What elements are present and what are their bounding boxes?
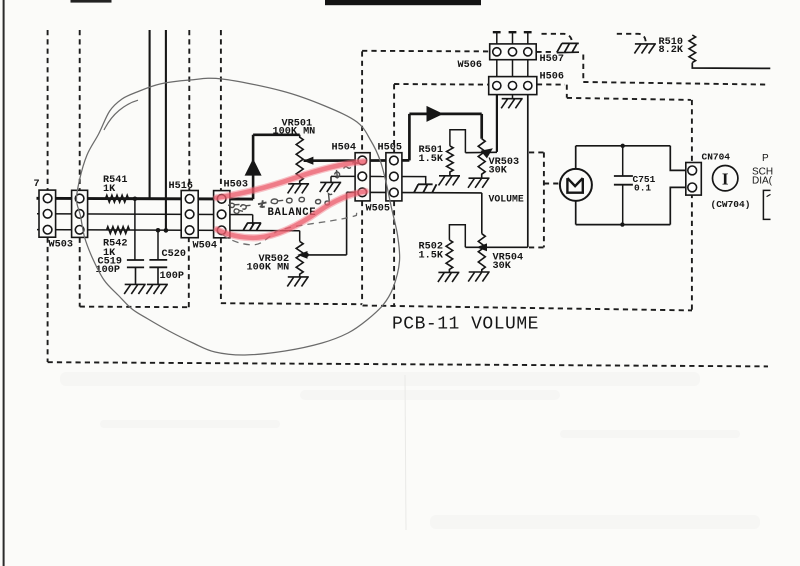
wire VR501 top horizontal [253, 134, 300, 137]
svg-text:1.5K: 1.5K [419, 251, 444, 262]
arrowhead VR502 wiper [297, 251, 307, 259]
capacitor C751 [614, 175, 633, 177]
wire to CN704 pin2 [670, 187, 686, 224]
wire H504 pin3 drop [346, 192, 348, 255]
svg-text:30K: 30K [493, 261, 512, 272]
connector W503 box A pin 7 [39, 190, 56, 237]
pink highlighter stroke lower (balance R) [217, 191, 366, 237]
connector H516 box [181, 191, 198, 238]
ground R501 [439, 176, 461, 186]
potentiometer VR501 [296, 135, 303, 184]
resistor R502 [446, 240, 453, 272]
wire VR502 wiper horizontal [304, 254, 347, 256]
board boundary dashed below W505 [393, 201, 395, 306]
wire VR503 wiper node [465, 151, 497, 153]
junction dot bus2 on bottom wire [164, 228, 169, 233]
svg-text:I: I [722, 169, 729, 188]
svg-text:W506: W506 [458, 60, 482, 71]
wire top signal (thick) W503 to H503 [37, 197, 254, 201]
wire H507 pin risers [496, 33, 498, 44]
svg-text:H505: H505 [378, 143, 402, 154]
hand-drawn pencil dashed line annotation [223, 210, 358, 245]
resistor R510 [689, 35, 696, 63]
junction dot C751 top [621, 144, 625, 148]
ground VR504 [468, 272, 490, 282]
wire vertical bus 1 [149, 30, 151, 199]
chassis ground right of H507 (parallelogram cells) [557, 43, 579, 52]
dashed from H506 left edge to H505 line [394, 83, 488, 86]
bracket symbol right edge [763, 190, 770, 219]
wire drop to VR504 top [481, 193, 483, 234]
wire bottom signal W503 to VR502 [37, 230, 300, 231]
resistor R542 [107, 227, 130, 234]
dashed vertical from H507 ground down [582, 55, 584, 82]
wire bottom channel H504-H505-VR504 [347, 191, 482, 194]
svg-text:C520: C520 [162, 249, 186, 260]
junction dot VR502 wiper [305, 253, 309, 257]
svg-text:0.1: 0.1 [634, 183, 651, 194]
svg-text:DIA(: DIA( [752, 176, 773, 187]
wire motor top [575, 146, 577, 169]
wire to CN704 pin1 [670, 146, 686, 171]
wire H505 pin2 stub [394, 177, 426, 185]
hand-drawn pencil ellipse annotation [76, 78, 399, 355]
inner box1 left edge dashed [79, 238, 81, 307]
capacitor C520 [149, 259, 167, 261]
PCB-11 board dashed bottom edge [363, 306, 693, 311]
wire R510 bottom lead [692, 63, 770, 69]
svg-text:100P: 100P [160, 271, 184, 282]
svg-text:1.5K: 1.5K [419, 154, 444, 165]
wire VR501 wiper to H505 (thick) [304, 159, 410, 162]
long dashed line right of H507 ground [583, 82, 769, 85]
resistor R541 [106, 195, 129, 202]
arrowhead VR503 wiper [481, 148, 493, 158]
dashed right of H507 [536, 51, 555, 53]
ground C520 [146, 284, 168, 294]
chassis ground H505 pin2 (parallelogram cells) [414, 184, 437, 192]
scan artifact black tick top left [71, 0, 112, 3]
arrowhead VR504 wiper [476, 243, 487, 251]
inner box1 right edge dashed [188, 238, 190, 307]
potentiometer VR503 [478, 139, 485, 178]
PCB-11 board dashed left edge above H504 [361, 51, 363, 152]
wire R502 top lead [449, 225, 465, 248]
pencil squiggle row (handwriting) [229, 162, 360, 213]
wire H507 to H506 links [496, 60, 498, 77]
potentiometer VR504 [478, 234, 485, 272]
connector CN704 box [686, 163, 702, 196]
connector H507 box [490, 44, 537, 60]
svg-text:H506: H506 [540, 72, 564, 83]
wire R501 top lead [450, 130, 466, 153]
dashed stub to motor [544, 183, 560, 185]
wire motor bottom horizontal [576, 224, 671, 226]
svg-text:W503: W503 [49, 240, 73, 251]
connector H505/W505 box [386, 153, 402, 201]
wire motor bottom [575, 201, 577, 225]
junction dot C519 branch [133, 197, 138, 202]
connector H504 box [355, 153, 370, 201]
capacitor C519 [127, 259, 144, 261]
chassis ground H503 pin2 (parallelogram cells) [243, 223, 261, 230]
svg-text:1K: 1K [103, 184, 116, 195]
wire motor top horizontal [576, 145, 671, 147]
dashed vertical through CN704 [691, 100, 693, 311]
inner box2 bottom edge dashed [221, 303, 362, 304]
wire VR504 wiper horizontal [465, 246, 528, 248]
PCB-11 board dashed top edge [362, 50, 489, 53]
connector W503 box B [72, 190, 88, 237]
ground VR501 [288, 184, 310, 194]
wire riser H505 to arrow line (thick) [408, 114, 411, 160]
motor M [560, 169, 592, 201]
wire H504 pin2 to H505 pin2 [362, 175, 394, 177]
wire H506 pin1 to VR503 wiper (thick) [496, 95, 498, 152]
label cut text PCB SCHEMATIC DIAGRAM [752, 153, 773, 187]
continuation ticks above H507 [493, 31, 501, 33]
board boundary dashed through H505 above [393, 84, 395, 152]
ground R502 [438, 272, 460, 282]
dashed hook above R510 ground [617, 34, 646, 42]
potentiometer VR502 [296, 241, 303, 276]
svg-text:H507: H507 [540, 54, 564, 65]
svg-text:W505: W505 [366, 204, 390, 215]
wire C519 branch vertical [134, 199, 136, 260]
inner box1 bottom edge dashed [80, 306, 189, 309]
scan artifact black bar top center [325, 0, 481, 5]
svg-text:8.2K: 8.2K [659, 45, 684, 56]
wire C751 top stub [622, 146, 624, 176]
svg-text:CN704: CN704 [702, 152, 731, 163]
dashed right of H506 [537, 83, 565, 85]
board boundary dashed through H503 upper [220, 30, 222, 191]
wire VR501 riser (thick) with arrow [252, 135, 255, 199]
svg-text:100K MN: 100K MN [273, 127, 316, 138]
ground VR503 [468, 178, 490, 188]
arrow right volume feed [427, 106, 444, 122]
board boundary dashed through W503 pin column 1 [47, 30, 49, 190]
board boundary dashed W503 lower / outer box left edge [47, 238, 49, 362]
arrowhead VR501 wiper [303, 157, 313, 165]
wire drop to VR502 top [299, 231, 301, 242]
dashed vertical motor box [543, 152, 545, 247]
connector H503/W504 box [214, 191, 230, 238]
svg-text:P: P [762, 153, 769, 164]
wire middle signal W503 to H503 [37, 213, 253, 216]
svg-text:VOLUME: VOLUME [489, 194, 524, 205]
wire arrow line to VR503 (thick) [409, 113, 481, 116]
svg-text:30K: 30K [489, 166, 508, 177]
wire H504 pin2 to ground [331, 175, 362, 177]
wire H504 pin2 ground stub [330, 176, 332, 182]
junction dot C751 bottom [620, 222, 624, 226]
ground left of R510 [634, 44, 656, 54]
outer dashed box bottom edge [48, 362, 768, 366]
pink highlighter stroke upper (balance L) [217, 162, 365, 198]
svg-text:(CW704): (CW704) [711, 199, 751, 210]
resistor R501 [447, 146, 454, 176]
wire C751 bottom stub [622, 185, 624, 225]
svg-text:PCB-11 VOLUME: PCB-11 VOLUME [392, 315, 539, 335]
wire C520 branch vertical [157, 230, 159, 260]
long dashed line to CN704 column [567, 98, 691, 100]
arrow up balance feed [245, 159, 262, 176]
svg-text:H503: H503 [224, 180, 248, 191]
svg-text:7: 7 [34, 179, 40, 190]
pencil ellipse start overlap stroke [104, 100, 138, 130]
scan artifact faint vertical [405, 375, 406, 530]
wire vertical bus 2 [165, 30, 167, 230]
svg-text:H504: H504 [332, 143, 356, 154]
ground C519 [124, 284, 146, 294]
board boundary dashed through W503 pin column 2 [79, 30, 81, 190]
dashed hook above H507 ground [542, 34, 573, 43]
svg-text:100K MN: 100K MN [247, 263, 290, 274]
ground H506 pin2 [501, 99, 523, 109]
wire H506 pin2 ground stub [512, 95, 514, 99]
scan bleed-through faint marks [60, 372, 760, 529]
wire drop to VR503 top (thick) [480, 114, 483, 139]
ground VR502 [287, 277, 309, 287]
dashed corner down from H506 right [566, 85, 568, 98]
connector H506 box [489, 77, 537, 95]
ground H504 pin2 [320, 182, 342, 192]
dashed stub motor box bottom [529, 246, 544, 248]
svg-text:H516: H516 [169, 181, 193, 192]
inner box2 left edge dashed below H503 [220, 238, 222, 303]
indicator circle I (CW704) [713, 166, 738, 191]
junction dot C520 branch [156, 228, 161, 233]
svg-text:W504: W504 [193, 241, 217, 252]
board boundary dashed through H516 [188, 30, 190, 190]
dashed stub motor box top [529, 151, 544, 153]
wire middle drop to chassis ground [252, 215, 254, 226]
wire H506 pin3 to VR504 wiper [527, 95, 529, 248]
scan page left border [3, 0, 5, 566]
PCB-11 board dashed left edge below W505 [361, 201, 363, 304]
